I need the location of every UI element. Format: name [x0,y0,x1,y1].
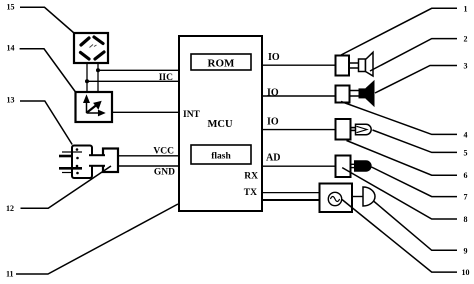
leader 5 [373,130,458,152]
svg-text:MCU: MCU [207,119,232,130]
svg-text:2: 2 [464,35,468,44]
accelerometer box 14 [76,92,113,122]
svg-text:IO: IO [267,117,279,128]
speaker 1 outline [359,59,366,72]
svg-text:14: 14 [7,44,15,53]
I2C vertical wire left [86,63,88,92]
svg-text:INT: INT [183,110,201,120]
speaker 1 leads [350,62,359,64]
battery connector square [103,149,118,173]
lamp leads [350,127,357,129]
IO wire 2 [262,95,336,97]
svg-text:IO: IO [267,88,279,99]
lamp outline bullet [356,124,372,134]
IIC wire SDA [87,80,180,82]
RX wire [262,192,320,194]
battery cell plate 2 short [62,172,72,174]
battery cell plate 1 short [59,155,72,158]
svg-text:6: 6 [464,171,468,180]
ROM box [191,54,251,70]
INT wire [112,111,180,113]
accelerometer axes arrows [84,96,104,115]
leader 7 [372,167,458,197]
leader 10 [342,200,457,273]
junction dot SCL [96,68,100,72]
svg-text:3: 3 [464,62,468,71]
battery cell plate 2 long [59,167,82,170]
sensor 15 diamond icon [81,37,105,59]
leader 12 [21,166,112,208]
leader 8 [342,168,457,219]
svg-text:15: 15 [7,2,15,11]
driver box 3 [336,119,351,140]
svg-text:GND: GND [154,168,175,178]
sine wave [330,197,339,202]
leader 6 [347,141,458,176]
svg-text:IO: IO [268,52,280,63]
svg-text:10: 10 [462,268,470,277]
I2C vertical wire right [97,63,99,92]
IO wire 1 [262,64,336,66]
svg-text:13: 13 [7,95,15,104]
junction dot SDA [85,79,89,83]
svg-text:12: 12 [6,204,14,213]
speaker 2 filled [359,88,367,98]
lamp filament chevron [357,126,368,132]
svg-text:11: 11 [6,269,14,278]
oscillator module box [320,184,353,213]
flash box [191,145,251,164]
microphone dome [363,187,375,206]
speaker 2 leads [350,90,359,92]
IR LED leads [350,163,355,165]
IO wire 3 [262,129,336,131]
leader 3 [375,66,457,94]
IIC wire SCL [98,69,180,71]
svg-text:RX: RX [244,172,258,182]
driver box 4 [336,156,351,178]
GND wire [118,165,180,167]
svg-text:flash: flash [211,152,231,162]
battery cell plate 1 long [62,151,82,153]
svg-text:VCC: VCC [153,147,174,157]
leader 15 [20,7,74,33]
IR LED filled bullet [354,160,372,171]
svg-text:TX: TX [244,188,257,198]
svg-text:9: 9 [464,246,468,255]
TX wire [262,199,320,201]
battery pack BT1 [72,146,92,179]
leader 13 [20,101,72,145]
svg-text:7: 7 [464,193,468,202]
battery yoke channel [90,156,105,166]
leader 9 [374,201,458,250]
MCU block U1 [179,36,262,211]
wire osc to mic [352,196,363,198]
svg-text:AD: AD [266,153,280,164]
leader 2 [370,39,457,71]
svg-text:ROM: ROM [208,58,236,70]
svg-text:1: 1 [464,4,468,13]
AD wire [262,165,336,167]
svg-text:5: 5 [464,148,468,157]
leader 11 [16,204,178,274]
leader 1 [341,8,457,55]
oscillator circle [328,192,341,205]
svg-text:4: 4 [464,130,468,139]
leader 14 [20,49,76,92]
driver box 2 [336,86,350,103]
battery polarity dots [76,148,79,151]
driver box 1 [336,56,350,76]
leader 4 [341,102,457,135]
svg-text:8: 8 [464,215,468,224]
sensor 15 center mark [90,45,97,48]
sensor box 15 [74,33,108,63]
VCC wire [118,155,180,157]
